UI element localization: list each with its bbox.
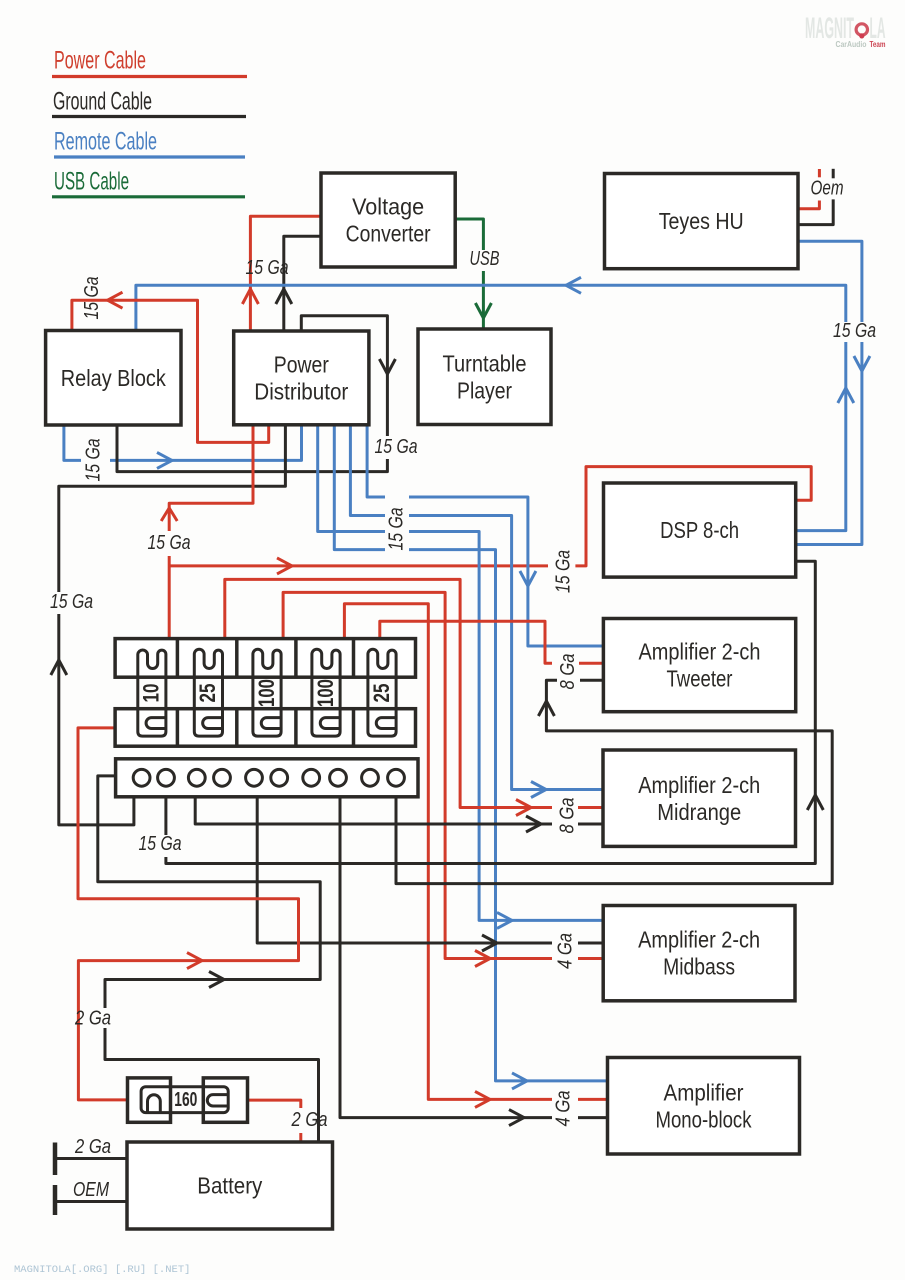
wire: blue PD to Amplifier Tweeter: [367, 425, 603, 646]
distribution block: [116, 759, 418, 797]
svg-text:Remote Cable: Remote Cable: [54, 128, 157, 156]
svg-text:Converter: Converter: [346, 221, 431, 247]
svg-text:15 Ga: 15 Ga: [139, 833, 182, 855]
svg-text:15 Ga: 15 Ga: [385, 508, 407, 551]
main fuse 160A holder left: [128, 1078, 171, 1122]
wire: red fuse160 to battery plus: [248, 1100, 301, 1142]
legend: Remote Cable (blue): [54, 128, 245, 157]
svg-text:15 Ga: 15 Ga: [81, 277, 103, 320]
wire: blue remote DSP to Relay Block (long line): [136, 277, 854, 530]
svg-text:Relay Block: Relay Block: [61, 365, 166, 391]
box: Turntable Player: [418, 329, 551, 425]
box: Teyes HU: [605, 174, 799, 269]
maxi fuse F2 (25A): [194, 649, 222, 736]
svg-text:Team: Team: [870, 40, 886, 49]
svg-text:Power: Power: [274, 351, 329, 377]
svg-text:Ground Cable: Ground Cable: [53, 88, 152, 116]
svg-text:15 Ga: 15 Ga: [50, 591, 93, 613]
svg-text:15 Ga: 15 Ga: [82, 439, 104, 482]
box: Voltage Converter: [321, 173, 455, 267]
distribution terminal 10: [388, 769, 405, 786]
wire: red Voltage Converter to Power Distributor: [242, 216, 321, 331]
box: Amplifier 2-ch Midbass: [603, 906, 795, 1001]
svg-text:Amplifier 2-ch: Amplifier 2-ch: [638, 772, 760, 798]
svg-text:4 Ga: 4 Ga: [552, 1091, 574, 1127]
svg-text:8 Ga: 8 Ga: [556, 798, 578, 834]
wire: black distribution block to DSP ground: [166, 561, 823, 863]
box: DSP 8-ch: [604, 483, 796, 577]
svg-text:160: 160: [174, 1089, 197, 1111]
svg-text:Power Cable: Power Cable: [54, 47, 146, 75]
wire: red battery positive snake to fuse block bottom bar: [78, 728, 299, 1100]
box: Amplifier 2-ch Tweeter: [603, 619, 795, 712]
svg-text:Teyes HU: Teyes HU: [659, 208, 744, 234]
svg-text:2 Ga: 2 Ga: [74, 1007, 111, 1029]
svg-text:USB Cable: USB Cable: [54, 168, 129, 196]
main fuse 160A element left: [148, 1095, 161, 1113]
svg-text:15 Ga: 15 Ga: [246, 257, 289, 279]
svg-text:Midbass: Midbass: [663, 954, 735, 980]
wire: green USB Voltage Converter to Turntable Player: [455, 219, 491, 329]
box: Amplifier 2-ch Midrange: [603, 750, 796, 846]
wire: black Voltage Converter to Power Distributor: [276, 236, 321, 331]
wire: black battery ground to distribution block: [98, 776, 320, 1142]
box: Relay Block: [46, 331, 181, 426]
wire: black distribution block to Amplifier Midrange ground: [195, 797, 603, 832]
svg-text:15 Ga: 15 Ga: [833, 320, 876, 342]
svg-text:Amplifier 2-ch: Amplifier 2-ch: [638, 927, 760, 953]
maxi fuse F4 (100A): [312, 649, 340, 736]
svg-text:Amplifier 2-ch: Amplifier 2-ch: [639, 639, 761, 665]
fuse block divider 4: [352, 639, 356, 678]
wire: red fuse1 branch to DSP: [169, 467, 811, 574]
wire: black Power Distributor to left bus down to distribution block: [51, 425, 286, 825]
box: Battery: [127, 1142, 333, 1229]
distribution terminal 7: [303, 769, 320, 786]
box: Power Distributor: [234, 331, 369, 425]
wire: black Power Distributor loop to Relay Block: [117, 316, 395, 472]
wire: black distribution block to Amplifier Midbass ground: [257, 797, 603, 951]
legend: Power Cable (red): [52, 47, 247, 77]
svg-text:25: 25: [195, 684, 220, 703]
svg-text:8 Ga: 8 Ga: [557, 654, 579, 690]
box: Amplifier Mono-block: [608, 1058, 800, 1155]
svg-text:Amplifier: Amplifier: [664, 1079, 744, 1105]
fuse block divider 2: [235, 639, 239, 678]
wire: red fuse4 to Amplifier Mono-block: [344, 604, 607, 1108]
wire: red Teyes HU OEM stub (dashed): [798, 169, 819, 209]
svg-text:DSP 8-ch: DSP 8-ch: [660, 517, 739, 543]
main fuse 160A holder right: [203, 1078, 247, 1122]
wire: red fuse1 to Power Distributor: [161, 425, 253, 639]
svg-text:100: 100: [313, 679, 338, 707]
svg-text:Midrange: Midrange: [657, 799, 741, 825]
distribution terminal 4: [214, 769, 231, 786]
svg-text:15 Ga: 15 Ga: [148, 532, 191, 554]
svg-text:Mono-block: Mono-block: [656, 1106, 752, 1132]
svg-text:Oem: Oem: [811, 177, 844, 199]
wire: blue Relay Block to Power Distributor: [64, 425, 302, 469]
fuse block divider 1: [176, 639, 180, 678]
svg-text:25: 25: [369, 684, 394, 703]
svg-text:Battery: Battery: [197, 1173, 262, 1199]
wire: red fuse5 to Amplifier Tweeter: [380, 621, 604, 663]
fuse block top bus bar: [115, 639, 415, 678]
maxi fuse F1 (10A): [138, 650, 166, 736]
wire: blue remote Teyes HU to DSP: [796, 241, 870, 544]
svg-text:Turntable: Turntable: [443, 350, 527, 376]
wire: black distribution block to Amplifier Mono-block ground: [340, 797, 608, 1126]
svg-text:15 Ga: 15 Ga: [552, 550, 574, 593]
legend: USB Cable (green): [52, 168, 245, 197]
wire: black distribution block to Amplifier Tweeter ground: [396, 680, 832, 883]
svg-text:MAGNITOLA[.ORG] [.RU] [.NET]: MAGNITOLA[.ORG] [.RU] [.NET]: [14, 1264, 190, 1276]
wire: blue PD to Amplifier Midrange: [350, 425, 603, 798]
svg-text:Player: Player: [457, 377, 512, 403]
svg-text:15 Ga: 15 Ga: [375, 436, 418, 458]
svg-text:Distributor: Distributor: [254, 378, 348, 404]
svg-text:10: 10: [139, 684, 164, 703]
distribution terminal 3: [188, 769, 205, 786]
wire: black Teyes HU OEM stub (dashed): [798, 169, 833, 225]
distribution terminal 2: [158, 769, 175, 786]
battery terminal stub OEM: [55, 1185, 127, 1215]
main fuse 160A body: [141, 1087, 228, 1113]
maxi fuse F3 (100A): [253, 649, 281, 736]
wire: red fuse2 to Amplifier Midrange: [225, 579, 603, 815]
svg-text:Tweeter: Tweeter: [667, 666, 733, 692]
maxi fuse F5 (25A): [368, 649, 396, 736]
svg-text:2 Ga: 2 Ga: [291, 1109, 328, 1131]
distribution terminal 5: [246, 769, 263, 786]
svg-text:USB: USB: [470, 248, 500, 270]
svg-text:2 Ga: 2 Ga: [74, 1136, 111, 1158]
distribution terminal 6: [271, 769, 288, 786]
wire: red Power Distributor to Relay Block: [72, 292, 269, 442]
distribution terminal 9: [362, 769, 379, 786]
wire: red fuse3 to Amplifier Midbass: [283, 592, 603, 966]
legend: Ground Cable (black): [52, 88, 246, 117]
battery terminal stub 2 Ga: [55, 1143, 127, 1176]
distribution terminal 8: [330, 769, 347, 786]
main fuse 160A element right: [207, 1095, 228, 1106]
svg-text:OEM: OEM: [73, 1179, 109, 1201]
svg-text:100: 100: [254, 679, 279, 707]
wire: blue PD to Amplifier Midbass: [318, 425, 604, 929]
svg-text:4 Ga: 4 Ga: [554, 933, 576, 969]
wire: blue PD to Amplifier Mono-block: [334, 425, 607, 1089]
svg-text:Voltage: Voltage: [352, 194, 424, 220]
fuse block divider 3: [294, 639, 298, 678]
fuse block bottom bus bar: [115, 709, 415, 747]
svg-text:CarAudio: CarAudio: [836, 40, 867, 49]
logo MAGNITOLA CarAudio Team: [805, 12, 886, 49]
distribution terminal 1: [133, 769, 150, 786]
